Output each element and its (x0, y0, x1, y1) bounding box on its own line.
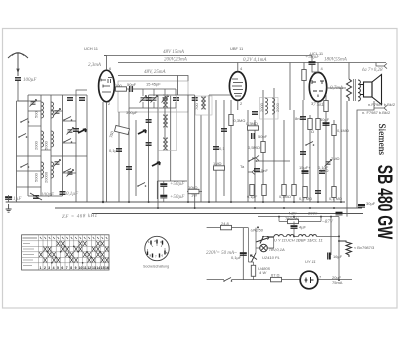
svg-text:0,1µF: 0,1µF (318, 165, 329, 170)
electrolytic +50µF b (160, 195, 167, 198)
capacitor 5nF (254, 169, 260, 172)
heater UBF11 (299, 235, 307, 237)
svg-text:0,1: 0,1 (219, 146, 225, 151)
svg-text:0,1MΩ: 0,1MΩ (337, 128, 349, 133)
capacitor 0,1µF mains (240, 252, 247, 255)
electrolytic 30µF right (358, 204, 365, 207)
tube UCH11 (99, 56, 115, 203)
svg-text:+50µF: +50µF (170, 182, 185, 187)
svg-text:4 W: 4 W (259, 270, 267, 275)
wire: bottom bus 3 (92, 213, 363, 215)
svg-text:5000: 5000 (44, 140, 49, 150)
svg-text:100µF: 100µF (23, 78, 37, 83)
oscillator coil pair (201, 97, 206, 110)
svg-text:11: 11 (83, 266, 87, 270)
svg-text:0,1µ: 0,1µ (109, 148, 118, 153)
IF can outline 3 (260, 98, 279, 120)
svg-text:75Ω2W: 75Ω2W (285, 216, 299, 221)
wire: +48V supply bus (104, 55, 312, 57)
AGC diode arrow (78, 129, 86, 133)
svg-text:48V, 25mA: 48V, 25mA (144, 70, 167, 75)
svg-text:UCL 11: UCL 11 (310, 238, 323, 243)
svg-text:UR250: UR250 (251, 228, 264, 233)
svg-text:180V,55mA: 180V,55mA (324, 58, 348, 63)
heater UCL11 (309, 235, 317, 237)
output transformer core (354, 79, 356, 101)
svg-text:≈ Bv7987/3: ≈ Bv7987/3 (354, 245, 375, 250)
capacitor 50pF b (252, 133, 255, 139)
ground symbol (6, 204, 12, 212)
padder capacitor dark (73, 129, 79, 132)
svg-text:200V: 200V (308, 211, 318, 216)
svg-text:13: 13 (92, 266, 96, 270)
svg-text:2: 2 (44, 266, 46, 270)
svg-text:100: 100 (115, 83, 122, 88)
wire: decoupling box (157, 181, 202, 202)
resistor 0,1MΩ d (332, 187, 336, 198)
svg-text:9: 9 (75, 266, 77, 270)
antenna coil L1 (41, 102, 44, 118)
scale lamp (260, 244, 268, 252)
svg-text:0,2 MΩ: 0,2 MΩ (299, 196, 312, 201)
resistor 0,5MΩ (261, 142, 265, 153)
coil L6 (51, 162, 54, 178)
resistor 67Ω (271, 277, 282, 281)
svg-text:5000: 5000 (34, 172, 39, 182)
svg-text:2000: 2000 (34, 140, 39, 150)
wire: tuner horizontal links (17, 90, 88, 173)
resistor 100 (114, 87, 129, 91)
output terminal top (376, 63, 387, 69)
svg-text:UY 11: UY 11 (305, 259, 316, 264)
svg-text:2,3mA: 2,3mA (88, 63, 102, 68)
capacitor blob a (146, 98, 152, 101)
capacitor 50pF (130, 86, 143, 92)
capacitor 5nF b (315, 191, 321, 194)
capacitor at oscillator (192, 98, 198, 101)
IF transformer 2 coil pair c (163, 138, 168, 151)
socket pin numbers (148, 239, 168, 259)
wire: 48V,25mA screen line (118, 76, 188, 82)
dropping resistor zigzag (339, 241, 352, 257)
rectifier tube UY11 (300, 271, 323, 289)
capacitor 0,1µF a (250, 185, 254, 196)
trimmer capacitor T3 (54, 160, 61, 167)
AGC diode arrow 2 (138, 130, 146, 134)
antenna coupling capacitor 100pF (15, 78, 41, 101)
wave switch contact b (18, 134, 27, 138)
capacitor 100pF mid (221, 129, 227, 132)
resistor 75Ω 2W (279, 217, 321, 224)
table bottom number row (40, 266, 109, 270)
phono terminal arrow 2 (248, 169, 263, 174)
svg-text:Ω: Ω (311, 129, 314, 134)
heater UCH11 (287, 235, 295, 237)
electrolytic +50µF a (160, 183, 167, 186)
wave switch contact f (63, 169, 72, 173)
svg-text:200V,23mA: 200V,23mA (164, 58, 188, 63)
output terminal bottom (374, 101, 387, 111)
wire: bottom bus 1 (6, 201, 345, 203)
svg-text:8: 8 (70, 266, 72, 270)
svg-text:–4,8V: –4,8V (286, 211, 297, 216)
output transformer secondary coil (358, 80, 360, 101)
wire: right vertical to rectifier (331, 217, 339, 280)
padder capacitor P2 (151, 96, 158, 103)
resistor 0,3MΩ (248, 126, 259, 130)
capacitor top tuner (67, 98, 73, 101)
svg-text:700: 700 (194, 103, 199, 110)
wave switch contact c (20, 164, 29, 168)
table header squiggles (23, 237, 108, 239)
IF can outline 2 (159, 96, 177, 151)
capacitor 40µF (323, 122, 330, 125)
svg-text:0,1µF: 0,1µF (66, 192, 79, 197)
svg-text:U2410 PL: U2410 PL (262, 255, 280, 260)
capacitor 1µF to ground (5, 195, 12, 202)
coil L5 (41, 162, 44, 178)
IF transformer 2 coil pair a (163, 95, 168, 108)
oscillator coil L4 (51, 131, 54, 147)
svg-text:+50µF: +50µF (305, 55, 320, 60)
svg-text:n.F7987 b.Bk/2: n.F7987 b.Bk/2 (368, 102, 396, 107)
svg-text:UBF 11: UBF 11 (230, 46, 244, 51)
heater UY11 (274, 235, 284, 237)
svg-text:20000: 20000 (44, 171, 49, 183)
output transformer primary (zigzag) (347, 79, 352, 101)
table X marks (39, 241, 108, 262)
capacitor 50pF mid (252, 112, 258, 115)
svg-text:7: 7 (66, 266, 68, 270)
tuning capacitor C var (30, 193, 42, 200)
IF transformer 2 coil pair b (163, 115, 168, 128)
trimmer capacitor T2 (67, 128, 74, 135)
svg-text:12: 12 (87, 266, 91, 270)
tube UBF11 (229, 63, 246, 111)
svg-text:75mA: 75mA (332, 280, 343, 285)
svg-text:n. F7987 b.Bk/2: n. F7987 b.Bk/2 (362, 110, 391, 115)
potentiometer U2410PL (251, 253, 258, 262)
svg-text:4µF: 4µF (299, 225, 307, 230)
speaker (360, 75, 382, 105)
junction dots power (257, 216, 340, 281)
svg-text:100pF: 100pF (41, 193, 55, 198)
svg-text:40µF: 40µF (320, 117, 330, 122)
oscillator coil L3 (41, 131, 44, 147)
electrolytic +50µF at UCL11 grid (309, 56, 319, 73)
antenna (8, 53, 28, 76)
svg-text:8nF: 8nF (295, 116, 302, 121)
svg-text:0,5MΩ: 0,5MΩ (248, 145, 260, 150)
wire: mains drop (242, 228, 244, 280)
svg-text:15 45pF: 15 45pF (146, 82, 161, 87)
wire UCL11 anode to output transformer (327, 88, 346, 115)
svg-text:ℓa 7×0,28: ℓa 7×0,28 (362, 67, 383, 73)
capacitor 0,1 mid (213, 147, 219, 150)
svg-text:0,1MΩ: 0,1MΩ (279, 194, 291, 199)
wire: mid vertical rails (103, 76, 195, 209)
resistor 0,1MΩ a (282, 185, 286, 196)
volume switch (248, 158, 290, 162)
svg-text:+50µF: +50µF (170, 195, 185, 200)
resistor 0,1MΩ c (332, 125, 336, 136)
svg-text:~87V: ~87V (322, 220, 334, 225)
resistor at UCL11 left (302, 63, 306, 101)
electrolytic 4µF (291, 221, 298, 236)
label 20µF 75mA (332, 275, 343, 285)
trimmer capacitor T1 (54, 109, 61, 116)
wire: 200V anode bus (118, 62, 386, 64)
socket pins (148, 240, 166, 258)
electrolytic 16µF (328, 253, 331, 260)
antenna coil L2 (51, 102, 54, 118)
svg-text:16µF: 16µF (333, 254, 343, 259)
svg-text:48V 15mA: 48V 15mA (163, 50, 185, 55)
switch tone (305, 142, 314, 146)
svg-text:0,3MΩ: 0,3MΩ (234, 118, 246, 123)
svg-text:10: 10 (79, 266, 83, 270)
wire: heater chain line (262, 235, 339, 237)
svg-text:5nF: 5nF (261, 168, 268, 173)
table row labels (23, 244, 34, 266)
svg-text:300µF: 300µF (126, 110, 138, 115)
capacitor blob b (146, 120, 152, 123)
svg-text:67 Ω: 67 Ω (271, 273, 280, 278)
svg-text:10kΩ: 10kΩ (188, 185, 197, 190)
capacitor 0,1µF bottom (60, 192, 66, 195)
svg-text:1W: 1W (191, 193, 197, 198)
padder capacitor P1 (140, 96, 147, 103)
wire: speaker return line (357, 108, 374, 208)
svg-text:0,3MΩ: 0,3MΩ (246, 121, 258, 126)
band switch lever (152, 162, 160, 166)
svg-text:6: 6 (61, 266, 63, 270)
svg-text:3: 3 (48, 266, 50, 270)
resistor 0,3MΩ upper mid (229, 115, 233, 126)
capacitor top tuner b (79, 98, 85, 101)
svg-text:0,1µF: 0,1µF (231, 255, 242, 260)
resistor 0,1MΩ b (292, 185, 296, 196)
svg-text:0,1µF: 0,1µF (247, 194, 258, 199)
phono terminal arrow 1 (252, 155, 259, 160)
svg-text:2MΩ: 2MΩ (331, 156, 340, 161)
urdox resistor UR250 (256, 236, 269, 244)
svg-text:5: 5 (57, 266, 59, 270)
wave switch contact a (20, 119, 29, 123)
wire transformer to 200V bus (348, 63, 350, 80)
resistor U4805 (251, 265, 255, 276)
wire: lamp chain (248, 228, 273, 280)
svg-text:1: 1 (40, 266, 42, 270)
capacitor 300pF left-mid (126, 167, 132, 170)
capacitor 50pF c (300, 152, 306, 155)
svg-text:0,1 MΩ: 0,1 MΩ (329, 196, 342, 201)
resistor 1MΩ mid (214, 166, 225, 170)
svg-text:78V,0,1A: 78V,0,1A (269, 247, 285, 252)
wire: bottom power line (232, 279, 353, 281)
resistor 10kΩ 1W (188, 189, 199, 193)
capacitor 0,1µF c (319, 171, 325, 174)
wire: power top line (258, 216, 339, 218)
IF transformer 3 coil a (265, 98, 268, 114)
table dots (47, 246, 101, 264)
capacitor 8nF (300, 117, 306, 120)
resistor 750 (114, 125, 129, 134)
svg-text:2000: 2000 (275, 102, 280, 112)
resistor ladder b (316, 119, 320, 130)
resistor 0,2MΩ (303, 187, 307, 198)
mains switch (207, 278, 233, 282)
svg-text:Sockelschaltung: Sockelschaltung (143, 265, 169, 269)
svg-text:24,8: 24,8 (221, 221, 230, 226)
svg-text:500: 500 (34, 111, 39, 118)
resistor 7,5k below UCL11 (324, 95, 328, 120)
potentiometer 2MΩ arrow (325, 160, 332, 167)
wire: middle vertical rails right (201, 63, 347, 217)
capacitor 0,1µF left-mid (116, 149, 122, 152)
wire: tuner vertical rails (17, 95, 88, 202)
resistor 24,8 mains (207, 225, 249, 229)
svg-text:Siemens: Siemens (377, 124, 387, 156)
trimmer small upper (30, 100, 37, 107)
svg-text:SB 480 GW: SB 480 GW (373, 165, 397, 240)
padder capacitor P3 (162, 96, 169, 103)
wire: IF can internals (129, 89, 176, 108)
svg-text:1µF: 1µF (13, 197, 22, 202)
svg-text:0,7mA: 0,7mA (330, 86, 344, 91)
svg-text:UCH 11: UCH 11 (84, 46, 99, 51)
svg-text:14: 14 (96, 266, 100, 270)
tube socket diagram (145, 236, 169, 260)
svg-text:50pF: 50pF (258, 134, 268, 139)
wave switch contact e (63, 139, 72, 143)
IF transformer 3 coil b (272, 98, 275, 114)
svg-text:50pF: 50pF (127, 82, 137, 87)
wire: bottom bus 2 (55, 207, 362, 209)
svg-text:1MΩ: 1MΩ (213, 161, 222, 166)
tube UCL11 (309, 63, 326, 116)
capacitor blob c (146, 143, 152, 146)
capacitor 15µF+ (302, 170, 309, 173)
svg-text:16: 16 (105, 266, 109, 270)
capacitor 0,1µF b (262, 185, 266, 196)
electrolytic 50µF top right (336, 212, 343, 215)
svg-text:U Y 11: U Y 11 (274, 238, 286, 243)
svg-text:15µF+: 15µF+ (299, 165, 311, 170)
oscillator can outline (196, 96, 213, 115)
IF can box 1 (118, 81, 188, 112)
switch position table (22, 235, 109, 270)
resistor ladder a (308, 119, 312, 130)
wave switch contact d (63, 117, 72, 121)
junction dots on buses (102, 201, 342, 209)
trimmer capacitor T4 (67, 170, 74, 177)
switch mid (137, 183, 146, 187)
svg-text:4: 4 (53, 266, 55, 270)
padder capacitor P4 (173, 98, 179, 101)
